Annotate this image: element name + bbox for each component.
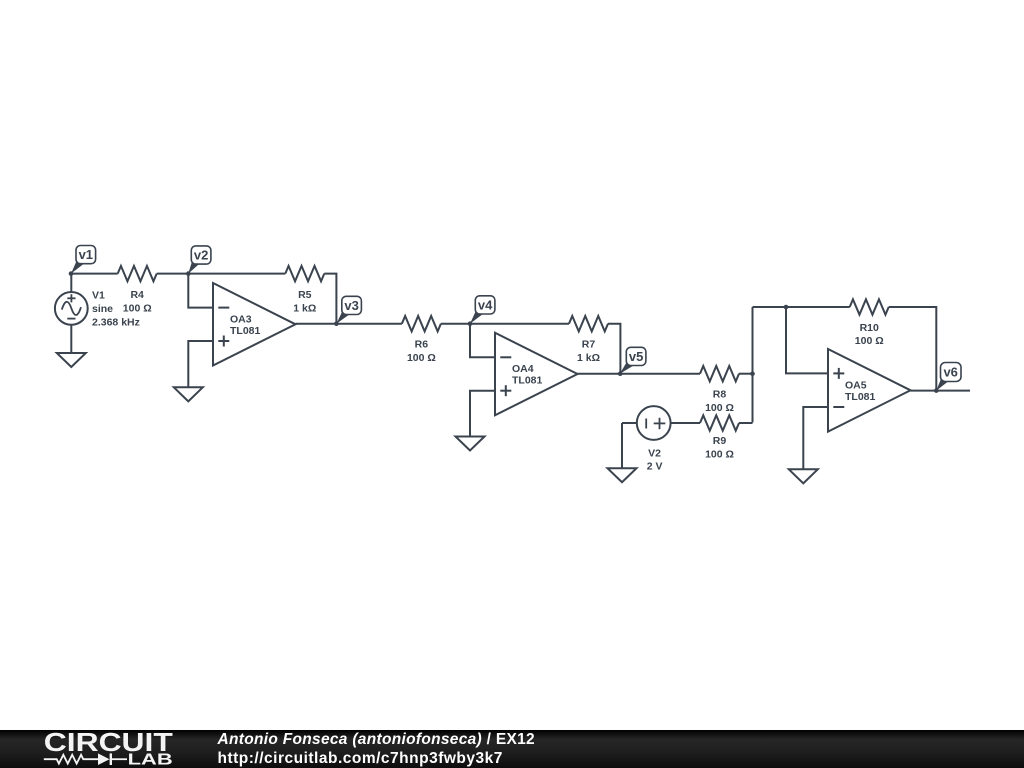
ground below V2	[608, 468, 637, 482]
wire OA4 non-inverting input to ground	[470, 391, 495, 437]
wire R6 right lead to v4 node	[441, 323, 470, 325]
wire R5 right lead down to v3 node	[324, 274, 336, 324]
junction dot R8 R9 vertical	[750, 371, 755, 376]
resistor R10	[850, 299, 889, 314]
resistor R4 labels	[123, 289, 152, 314]
resistor R4	[118, 266, 157, 281]
node v5 junction dot	[618, 371, 623, 376]
wire v2 node to OA3 inverting input	[188, 274, 213, 308]
node v2 junction dot	[186, 271, 191, 276]
wire v4 node to R7 left lead	[470, 323, 569, 325]
svg-text:V2: V2	[648, 448, 661, 460]
resistor R9 labels	[705, 435, 734, 460]
svg-text:OA4: OA4	[512, 363, 534, 375]
op-amp OA4 labels	[512, 363, 543, 387]
svg-text:http://circuitlab.com/c7hnp3fw: http://circuitlab.com/c7hnp3fwby3k7	[218, 750, 503, 767]
svg-text:OA5: OA5	[845, 379, 867, 391]
svg-text:2.368 kHz: 2.368 kHz	[92, 316, 140, 328]
node v6 junction dot	[934, 388, 939, 393]
wire OA5 output	[911, 390, 971, 392]
ground below OA3	[174, 387, 203, 401]
svg-text:100 Ω: 100 Ω	[855, 335, 884, 347]
svg-text:100 Ω: 100 Ω	[705, 448, 734, 460]
node v1 junction dot	[69, 271, 74, 276]
ground below OA5	[789, 469, 818, 483]
wire V2 negative lead to ground	[621, 423, 623, 468]
wire R9 right lead to junction	[739, 422, 753, 424]
svg-text:v1: v1	[79, 247, 93, 262]
svg-text:100 Ω: 100 Ω	[705, 402, 734, 414]
wire junction vertical R9 to top row	[752, 307, 754, 423]
wire R8 right lead to junction	[739, 373, 753, 375]
svg-text:1 kΩ: 1 kΩ	[293, 302, 316, 314]
op-amp OA3 labels	[230, 313, 261, 337]
op-amp OA5	[828, 349, 911, 432]
resistor R6	[402, 316, 441, 331]
svg-text:100 Ω: 100 Ω	[407, 352, 436, 364]
node v4 junction dot	[468, 321, 473, 326]
svg-text:R10: R10	[860, 322, 879, 334]
svg-text:1 kΩ: 1 kΩ	[577, 352, 600, 364]
voltage source V2	[622, 406, 700, 440]
resistor R8	[700, 366, 739, 381]
svg-text:TL081: TL081	[512, 375, 543, 387]
resistor R8 labels	[705, 389, 734, 414]
svg-text:100 Ω: 100 Ω	[123, 302, 152, 314]
resistor R5	[285, 266, 324, 281]
op-amp OA3	[213, 283, 296, 366]
wire R4 right lead to v2 node	[157, 273, 189, 275]
svg-text:v3: v3	[344, 298, 358, 313]
resistor R10 labels	[855, 322, 884, 347]
wire R7 right lead down to v5 node	[608, 324, 620, 374]
node v4 label	[470, 296, 495, 324]
svg-text:TL081: TL081	[845, 391, 876, 403]
wire v2 node to R5 left lead	[188, 273, 285, 275]
wire R10 right lead down to v6 node	[889, 307, 937, 391]
svg-text:TL081: TL081	[230, 325, 261, 337]
svg-text:R4: R4	[130, 289, 144, 301]
wire OA3 non-inverting input to ground	[188, 341, 213, 387]
svg-text:R5: R5	[298, 289, 312, 301]
voltage source V1	[55, 274, 88, 353]
wire v4 node to OA4 inverting input	[470, 324, 495, 358]
svg-text:v6: v6	[943, 365, 957, 380]
resistor R7 labels	[577, 339, 600, 364]
wire OA5 inverting input to ground	[803, 407, 828, 469]
wire top row to R10 left lead	[753, 306, 850, 308]
svg-text:R9: R9	[713, 435, 727, 447]
svg-text:R8: R8	[713, 389, 727, 401]
svg-text:v5: v5	[629, 349, 643, 364]
node v5 label	[620, 347, 646, 373]
svg-text:sine: sine	[92, 303, 113, 315]
wire v1 node to R4 left lead	[71, 273, 118, 275]
svg-text:Antonio Fonseca (antoniofonsec: Antonio Fonseca (antoniofonseca) / EX12	[217, 731, 535, 748]
svg-text:v2: v2	[194, 248, 208, 263]
resistor R5 labels	[293, 289, 316, 314]
svg-text:v4: v4	[478, 298, 493, 313]
svg-text:2 V: 2 V	[647, 461, 663, 473]
resistor R9	[700, 415, 739, 430]
junction dot OA5 branch	[784, 305, 789, 310]
node v2 label	[188, 246, 211, 274]
node v3 label	[336, 296, 361, 323]
resistor R7	[569, 316, 608, 331]
op-amp OA5 labels	[845, 379, 876, 403]
svg-text:V1: V1	[92, 289, 105, 301]
footer bar	[0, 730, 1024, 768]
svg-text:R7: R7	[582, 339, 596, 351]
wire v5 node to R8 left lead	[620, 373, 700, 375]
ground below V1	[57, 353, 86, 367]
wire v3 node to R6 left lead	[336, 323, 402, 325]
voltage source V1 labels	[92, 289, 140, 328]
svg-text:R6: R6	[415, 339, 429, 351]
wire OA3 output to v3 node	[296, 323, 337, 325]
node v6 label	[936, 363, 961, 391]
node v1 label	[71, 246, 96, 274]
op-amp OA4	[495, 333, 578, 416]
svg-text:LAB: LAB	[128, 752, 173, 768]
CircuitLab logo	[44, 727, 173, 768]
ground below OA4	[456, 437, 485, 451]
wire branch junction to OA5 non-inverting input	[786, 307, 828, 373]
resistor R6 labels	[407, 339, 436, 364]
voltage source V2 labels	[647, 448, 663, 473]
svg-text:OA3: OA3	[230, 313, 252, 325]
node v3 junction dot	[334, 321, 339, 326]
wire OA4 output to v5 node	[578, 373, 620, 375]
